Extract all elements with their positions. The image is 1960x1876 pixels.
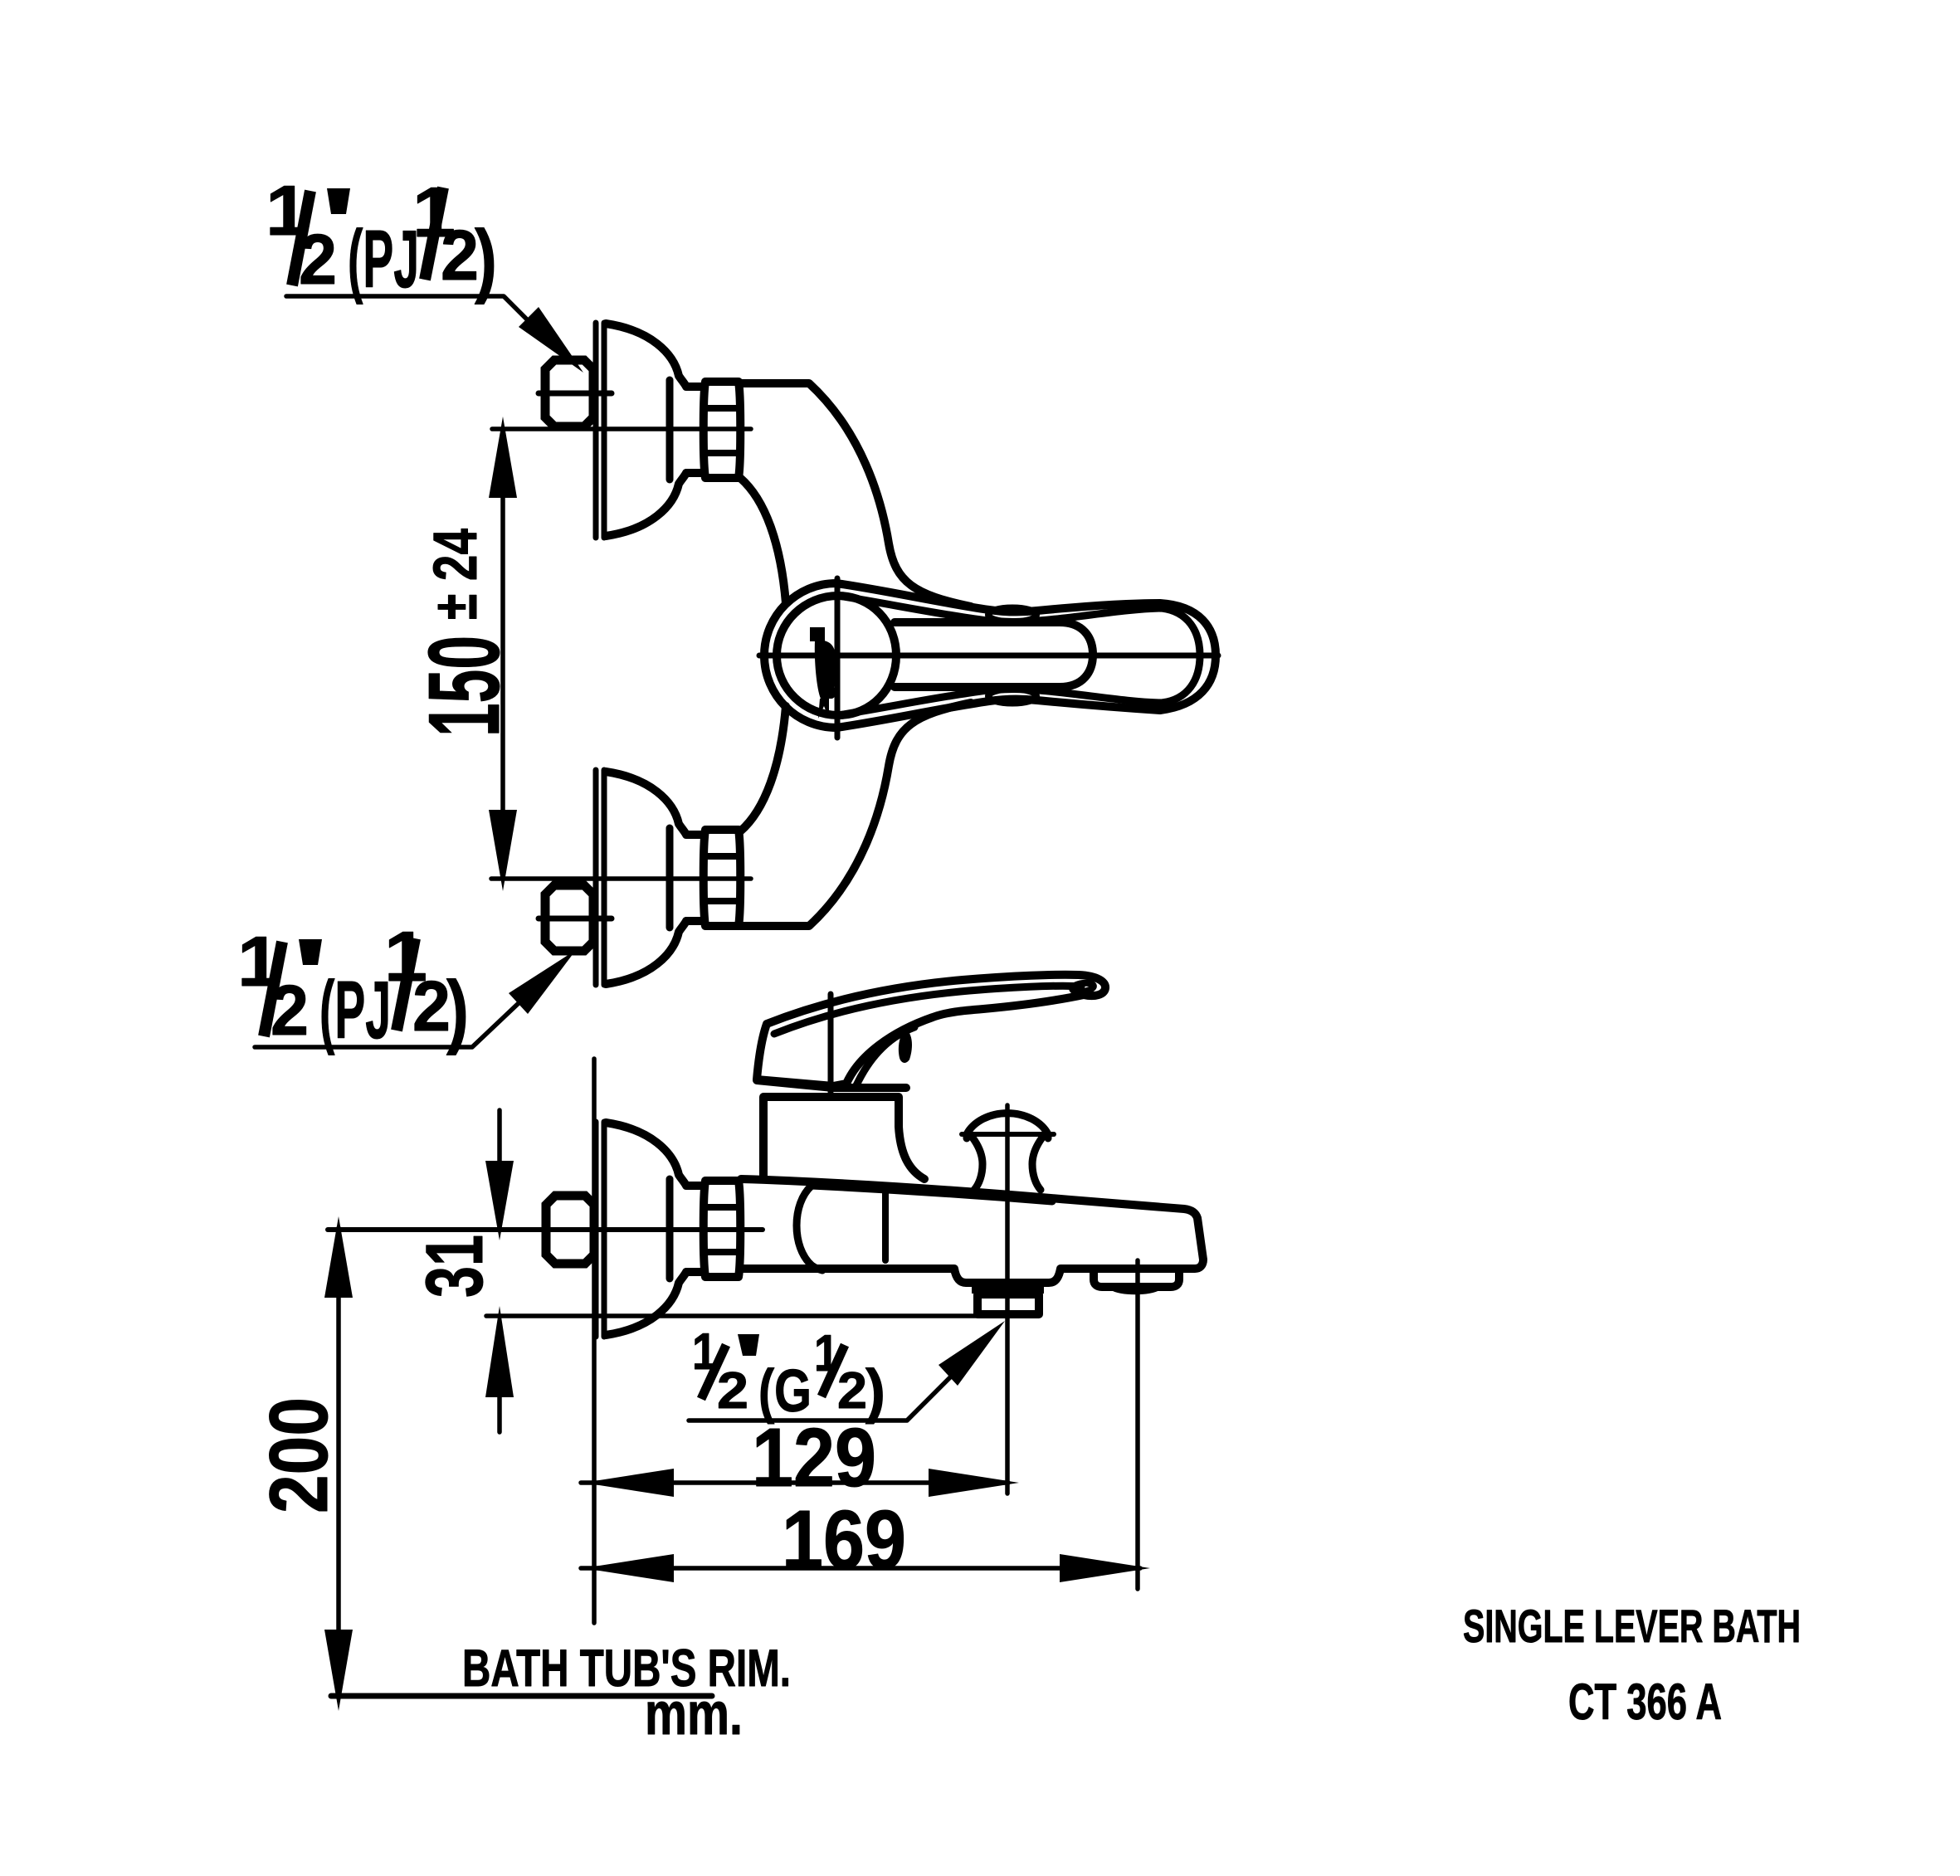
31-dim upper arrow + stem: [497, 1110, 502, 1163]
169-dim arrowheads: [583, 1554, 1150, 1582]
handle cap inner circle (front view): [777, 596, 896, 715]
handle horizontal centerline (front view): [759, 653, 1218, 659]
diverter knob dome (side view): [967, 1113, 1048, 1138]
lever handle outline (side view): [757, 975, 1105, 1086]
bell rim inner line bottom: [666, 828, 674, 928]
knob horizontal tick: [962, 1132, 1054, 1137]
union nut (side view): [704, 1181, 741, 1277]
shower hose port ring (side view): [978, 1294, 1039, 1314]
31-dim lower arrow + stem: [497, 1396, 502, 1432]
nipple top centerline tick: [539, 391, 612, 397]
handle cap outer circle (front view): [764, 583, 836, 728]
wall nipple bottom (front view): [545, 885, 593, 951]
150-dim dimension line: [500, 429, 505, 879]
svg-text:2: 2: [271, 972, 309, 1050]
lever inner top line (side view): [774, 986, 1081, 1034]
bath tub rim line: [331, 1693, 712, 1699]
logo mark on handle cap: [810, 627, 839, 719]
cartridge housing (side view): [763, 1097, 924, 1179]
pipe centerline (side view, also 200-dim top extension): [328, 1227, 763, 1232]
escutcheon bell (side view): [606, 1123, 704, 1335]
bell rim inner line top: [666, 380, 674, 480]
svg-text:31: 31: [409, 1235, 500, 1298]
spout outlet plinth (side view): [1094, 1269, 1179, 1287]
200-dim dimension line: [336, 1228, 341, 1695]
knob / shower port centerline (also 129-dim extension): [1005, 1105, 1010, 1493]
shower hose port flange (side view): [972, 1283, 1044, 1294]
wall flange plate (side view): [596, 1122, 604, 1337]
129-dim arrowheads: [583, 1469, 1019, 1497]
lever tip hook opening: [1071, 982, 1094, 993]
svg-text:): ): [865, 1358, 885, 1425]
label 1/2"(PJ 1/2) top: text: [266, 172, 497, 305]
lever cartridge centerline (side view): [828, 994, 834, 1092]
200-dim arrowheads: [324, 1216, 353, 1711]
union nut top (front view): [704, 382, 741, 478]
body inner panel arc (side view): [797, 1186, 822, 1270]
svg-text:2: 2: [412, 967, 451, 1046]
169-dim dimension line: [581, 1566, 1140, 1571]
svg-text:150: 150: [407, 636, 520, 737]
wall nipple (side view): [546, 1196, 594, 1264]
lever front S inner curve (side view): [856, 1027, 914, 1085]
faucet body top edge and spout (side view): [741, 1179, 1203, 1283]
svg-text:(G: (G: [758, 1358, 812, 1425]
150-dim top extension line: [492, 426, 751, 431]
mixer body C-shape top limb outer edge: [740, 383, 971, 607]
handle outer outline (front view): [836, 583, 1216, 728]
svg-text:): ): [446, 964, 469, 1055]
svg-text:2: 2: [299, 221, 337, 300]
nut facet lines (side view): [705, 1207, 739, 1252]
31-dim lower line: [486, 1313, 1009, 1318]
mixer body C-shape bottom limb inner edge: [740, 706, 786, 831]
svg-text:2: 2: [837, 1362, 867, 1420]
body inner panel top line (side view): [812, 1186, 1052, 1201]
label 1/2"(PJ 1/2) bottom: leader line and arrowhead: [255, 1003, 519, 1047]
handle bottom lug bump (front view): [988, 689, 1036, 704]
spout outlet aerator arc: [1112, 1287, 1158, 1291]
wall line / dimension extension (side view): [592, 1059, 597, 1623]
label 1/2"(G 1/2): text: [692, 1323, 885, 1425]
lever underside lug (side view): [899, 1029, 912, 1063]
union nut bottom (front view): [704, 830, 741, 926]
svg-text:(PJ: (PJ: [319, 964, 391, 1055]
escutcheon bell bottom (front view): [606, 772, 704, 984]
handle inner parallel line (front view): [838, 596, 1200, 715]
svg-text:2: 2: [441, 217, 479, 295]
wall nipple top (front view): [545, 360, 593, 426]
svg-text:169: 169: [782, 1493, 906, 1586]
diverter knob waist (side view): [973, 1138, 1042, 1190]
svg-text:CT 366 A: CT 366 A: [1568, 1674, 1722, 1730]
mixer body C-shape top limb inner edge: [740, 478, 786, 603]
nipple bottom centerline tick: [539, 916, 612, 922]
svg-text:): ): [475, 213, 497, 305]
bell rim inner line (side view): [666, 1179, 674, 1279]
spout outlet centerline (also 169-dim right extension): [1135, 1260, 1140, 1589]
nut facet lines top: [705, 408, 739, 453]
svg-text:± 24: ± 24: [421, 529, 490, 620]
svg-text:SINGLE LEVER BATH: SINGLE LEVER BATH: [1463, 1600, 1801, 1652]
150-dim arrowheads: [489, 417, 517, 891]
wall flange plate top (front view): [596, 323, 604, 538]
label 1/2"(G 1/2): leader line and arrowhead: [689, 1373, 954, 1420]
handle slot (front view): [895, 622, 1093, 687]
body vertical tick (side view): [882, 1192, 889, 1260]
129-dim dimension line: [581, 1480, 1008, 1485]
escutcheon bell top (front view): [606, 324, 704, 536]
lever base plate (side view): [757, 1080, 906, 1088]
label 1/2"(PJ 1/2) bottom: text: [237, 918, 469, 1055]
handle top lug bump (front view): [988, 608, 1036, 622]
mixer body C-shape bottom limb outer edge: [740, 703, 971, 926]
svg-text:200: 200: [252, 1397, 344, 1513]
nut facet lines bottom: [705, 856, 739, 901]
wall flange plate bottom (front view): [596, 770, 604, 985]
handle vertical centerline (front view): [835, 578, 841, 738]
svg-text:2: 2: [717, 1362, 748, 1420]
150-dim bottom extension line: [491, 876, 751, 881]
svg-text:mm.: mm.: [645, 1681, 743, 1747]
label 1/2"(PJ 1/2) top: leader line and arrowhead: [286, 296, 544, 336]
svg-text:(PJ: (PJ: [348, 213, 419, 305]
svg-text:129: 129: [752, 1411, 876, 1504]
